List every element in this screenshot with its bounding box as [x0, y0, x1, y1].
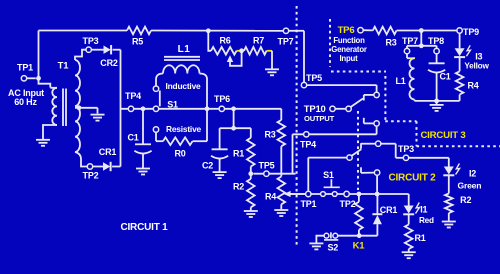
svg-text:R0: R0 [174, 149, 185, 159]
svg-text:TP2: TP2 [340, 199, 356, 209]
svg-text:K1: K1 [353, 240, 366, 251]
svg-text:R5: R5 [132, 37, 143, 47]
svg-text:I3: I3 [475, 51, 482, 61]
svg-text:C1: C1 [127, 133, 138, 143]
svg-text:R2: R2 [233, 182, 244, 192]
svg-text:R3: R3 [385, 38, 396, 48]
svg-text:S1: S1 [167, 99, 178, 109]
svg-text:R7: R7 [253, 35, 264, 45]
svg-text:T1: T1 [58, 60, 70, 71]
svg-text:C2: C2 [202, 161, 213, 171]
svg-text:Green: Green [457, 181, 481, 191]
svg-text:TP9: TP9 [463, 27, 479, 37]
svg-text:TP3: TP3 [83, 36, 99, 46]
svg-text:L1: L1 [178, 44, 191, 55]
svg-text:R2: R2 [460, 195, 471, 205]
svg-text:Yellow: Yellow [464, 62, 489, 71]
svg-text:Red: Red [419, 216, 434, 225]
svg-text:R6: R6 [219, 35, 230, 45]
svg-text:TP6: TP6 [338, 25, 355, 36]
svg-text:Inductive: Inductive [166, 81, 202, 91]
svg-text:TP7: TP7 [278, 37, 294, 47]
svg-text:TP4: TP4 [300, 139, 316, 149]
svg-text:Input: Input [339, 54, 358, 63]
svg-text:CIRCUIT 1: CIRCUIT 1 [120, 222, 168, 233]
svg-text:Generator: Generator [331, 45, 367, 54]
svg-text:R1: R1 [414, 233, 425, 243]
svg-text:R1: R1 [233, 149, 244, 159]
svg-text:TP8: TP8 [428, 36, 444, 46]
svg-text:TP5: TP5 [259, 160, 275, 170]
svg-text:C1: C1 [439, 72, 450, 82]
svg-text:I2: I2 [469, 168, 476, 178]
svg-text:TP3: TP3 [398, 144, 414, 154]
svg-text:CR1: CR1 [380, 205, 398, 215]
svg-text:I1: I1 [420, 204, 427, 214]
svg-text:TP2: TP2 [83, 171, 99, 181]
svg-text:Function: Function [333, 36, 365, 45]
svg-text:R3: R3 [264, 130, 275, 140]
svg-text:TP1: TP1 [17, 62, 33, 72]
svg-text:CR2: CR2 [100, 58, 118, 68]
svg-text:CIRCUIT 2: CIRCUIT 2 [388, 173, 436, 184]
svg-text:TP1: TP1 [300, 199, 316, 209]
svg-text:TP7: TP7 [402, 36, 418, 46]
svg-text:TP5: TP5 [306, 73, 322, 83]
svg-text:R4: R4 [265, 192, 276, 202]
svg-text:Resistive: Resistive [166, 124, 202, 134]
svg-text:CIRCUIT 3: CIRCUIT 3 [420, 130, 465, 141]
svg-text:L1: L1 [395, 76, 405, 86]
svg-text:60 Hz: 60 Hz [14, 97, 37, 107]
svg-text:CR1: CR1 [99, 147, 117, 157]
svg-text:OUTPUT: OUTPUT [304, 114, 335, 123]
svg-text:S2: S2 [327, 243, 338, 253]
svg-text:TP6: TP6 [214, 94, 230, 104]
svg-text:R4: R4 [467, 81, 478, 91]
svg-text:S1: S1 [323, 170, 334, 180]
svg-text:TP4: TP4 [125, 91, 141, 101]
